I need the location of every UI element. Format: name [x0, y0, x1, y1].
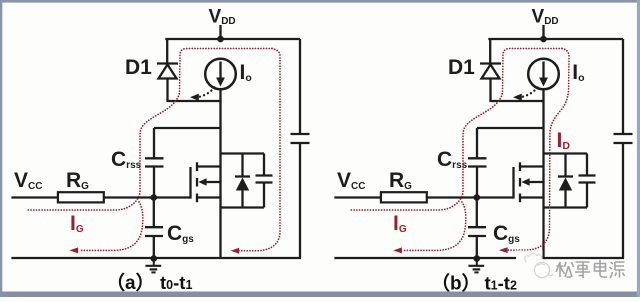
current source Io circle (circuit b)	[528, 59, 559, 90]
resistor RG body (circuit a)	[58, 192, 104, 202]
wire body-diode top rail (circuit b)	[544, 152, 588, 154]
red dotted current path loop (b): VDD rail to Crss to gate	[349, 49, 562, 211]
transistor source tap (circuit a)	[196, 196, 221, 198]
capacitor bulk branch upper (circuit a)	[299, 39, 301, 134]
transistor gate bar (circuit a)	[189, 167, 191, 199]
wire Vcc input (circuit b)	[334, 196, 381, 198]
wire D1 branch lower (circuit b)	[489, 79, 491, 102]
black dotted arrow Coss displacement current (circuit b)	[522, 88, 538, 97]
wire bottom rail (circuit a)	[11, 257, 301, 259]
wire D1-to-drain link (circuit a)	[166, 100, 220, 102]
capacitor Crss (circuit a)	[153, 128, 155, 158]
svg-text:（b）: （b）	[431, 272, 481, 295]
red arrowhead bottom right (a)	[231, 248, 240, 254]
capacitor Coss branch (circuit a)	[263, 154, 265, 176]
transistor drain tap (circuit b)	[519, 165, 544, 167]
capacitor bulk plates (circuit a)	[291, 133, 310, 135]
capacitor Coss branch (circuit b)	[586, 154, 588, 176]
current source arrow (circuit a)	[219, 62, 221, 80]
junction VDD node dot (circuit a)	[217, 36, 223, 42]
body diode branch (circuit a)	[241, 154, 243, 177]
red dotted current path loop (a): VDD rail to Crss to gate	[26, 49, 272, 211]
frame border top	[0, 0, 640, 3]
capacitor Crss (circuit b)	[476, 128, 478, 158]
junction source-ground dot (circuit b)	[474, 255, 480, 261]
watermark logo (covers rail)	[516, 251, 543, 263]
transistor drain tap (circuit a)	[196, 165, 221, 167]
wire top rail (circuit b)	[488, 38, 623, 40]
wire gate lead (circuit b)	[427, 196, 514, 198]
diode D1 triangle (circuit b)	[482, 65, 500, 79]
red dotted current path (a): right side VDD loop down bulk cap	[235, 49, 280, 251]
watermark text 松哥电源 (drawn)	[556, 260, 625, 278]
junction VDD node dot (circuit b)	[540, 36, 546, 42]
wire top rail (circuit a)	[165, 38, 300, 40]
transistor body arrow (circuit b)	[526, 181, 544, 183]
red dotted gate-to-source loop (b)	[403, 202, 466, 250]
junction gate node dot (circuit b)	[474, 194, 480, 200]
wire gate lead (circuit a)	[104, 196, 191, 198]
wire drain vertical (circuit b)	[542, 89, 544, 258]
frame border left	[0, 0, 2, 297]
wire D1 branch lower (circuit a)	[166, 79, 168, 102]
diode D1 triangle (circuit a)	[159, 65, 177, 79]
wire D1 branch upper (circuit b)	[489, 39, 491, 64]
black dotted arrow Coss displacement current (circuit a)	[199, 88, 215, 97]
red arrowhead bottom left (a)	[70, 247, 79, 253]
transistor channel segments (circuit a)	[196, 162, 198, 171]
diode D1 cathode bar (circuit a)	[157, 62, 178, 64]
capacitor bulk plates (circuit b)	[614, 133, 633, 135]
red dotted drain current path (b): through MOSFET channel	[504, 49, 570, 251]
transistor gate bar (circuit b)	[512, 167, 514, 199]
body diode branch (circuit b)	[564, 154, 566, 177]
wire D1 branch upper (circuit a)	[166, 39, 168, 64]
frame border bottom	[0, 292, 640, 298]
svg-text:（a）: （a）	[106, 271, 155, 294]
red arrowhead bottom (b) drain loop	[499, 247, 508, 253]
svg-text:D1: D1	[125, 56, 152, 79]
junction gate node dot (circuit a)	[151, 194, 157, 200]
transistor channel segments (circuit b)	[519, 162, 521, 171]
wire D1-to-drain link (circuit b)	[489, 100, 543, 102]
diode D1 cathode bar (circuit b)	[480, 62, 501, 64]
wire body-diode bottom rail (circuit a)	[221, 206, 265, 208]
capacitor bulk branch upper (circuit b)	[622, 39, 624, 134]
ground symbol (circuit a)	[153, 259, 155, 266]
capacitor Cgs (circuit b)	[476, 198, 478, 228]
transistor body arrow (circuit a)	[203, 181, 221, 183]
wire drain-to-Crss (circuit b)	[477, 127, 544, 129]
junction source-ground dot (circuit a)	[151, 255, 157, 261]
red dotted gate-to-source loop (a)	[80, 202, 143, 250]
red arrowhead bottom left (b)	[393, 247, 402, 253]
transistor source tap (circuit b)	[519, 196, 544, 198]
wire drain vertical (circuit a)	[219, 89, 221, 258]
wire drain-to-Crss (circuit a)	[154, 127, 221, 129]
frame border right	[637, 0, 640, 297]
capacitor Cgs (circuit a)	[153, 198, 155, 228]
current source Io circle (circuit a)	[205, 59, 236, 90]
svg-text:D1: D1	[448, 56, 475, 79]
wire VDD lead (circuit b)	[542, 25, 544, 40]
wire body-diode bottom rail (circuit b)	[544, 206, 588, 208]
wire body-diode top rail (circuit a)	[221, 152, 265, 154]
capacitor bulk branch lower (circuit b)	[622, 143, 624, 258]
wire Vcc input (circuit a)	[11, 196, 58, 198]
resistor RG body (circuit b)	[381, 192, 427, 202]
wire bottom rail (circuit b)	[334, 257, 624, 259]
wire VDD lead (circuit a)	[219, 25, 221, 40]
capacitor bulk branch lower (circuit a)	[299, 143, 301, 258]
ground symbol (circuit b)	[476, 259, 478, 266]
current source arrow (circuit b)	[542, 62, 544, 80]
